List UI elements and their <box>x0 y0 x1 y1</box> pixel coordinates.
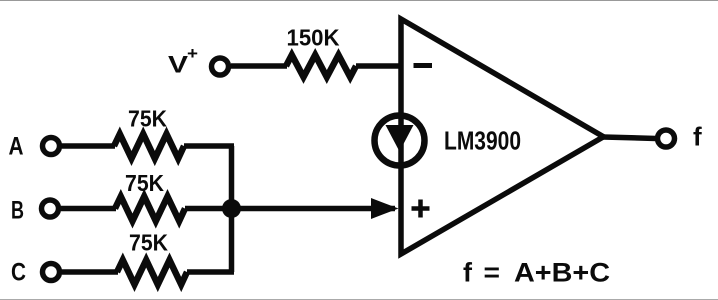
op-amp U1 LM3900 triangle <box>401 19 604 254</box>
svg-text:+: + <box>187 44 198 63</box>
svg-text:75K: 75K <box>128 106 167 132</box>
junction dot at B node <box>222 199 241 218</box>
equation f = A+B+C <box>463 258 610 288</box>
resistor 150K <box>286 55 356 77</box>
svg-text:f: f <box>463 258 473 288</box>
svg-text:150K: 150K <box>287 25 340 51</box>
wire V+ terminal to R 150K <box>231 63 287 69</box>
svg-text:C: C <box>11 259 26 287</box>
scan edge line top <box>0 0 718 2</box>
resistor 75K (B) <box>115 197 185 222</box>
plus input sign <box>412 200 430 218</box>
resistor 75K (C) <box>117 260 187 285</box>
terminal A <box>43 138 60 155</box>
current source circle of Norton amp <box>375 116 425 166</box>
resistor 75K (A) <box>114 134 184 159</box>
svg-text:LM3900: LM3900 <box>444 126 521 156</box>
node V+ label <box>168 44 198 79</box>
wire C terminal to R 75K <box>62 269 118 275</box>
wire summing bus vertical <box>229 146 235 272</box>
terminal B <box>42 200 59 217</box>
terminal V+ <box>212 58 229 75</box>
wire output to terminal f <box>603 137 656 139</box>
wire A terminal to R 75K <box>62 143 115 149</box>
svg-text:V: V <box>168 52 188 79</box>
svg-text:A: A <box>9 133 24 161</box>
minus input sign <box>414 63 433 68</box>
wire R 75K (B) to plus input with arrowhead <box>185 206 395 212</box>
wire R 150K to minus input <box>356 63 401 69</box>
wire B terminal to R 75K <box>61 206 116 212</box>
svg-text:A+B+C: A+B+C <box>514 258 610 288</box>
svg-text:f: f <box>693 122 702 152</box>
svg-text:75K: 75K <box>129 230 168 256</box>
scan edge line bottom <box>0 299 718 300</box>
svg-text:=: = <box>484 258 501 288</box>
wire R 75K (C) to bus <box>187 269 234 275</box>
svg-text:B: B <box>11 197 24 225</box>
wire R 75K (A) to bus <box>184 143 234 149</box>
arrowhead at plus input <box>371 198 399 219</box>
current source arrow (down) <box>386 125 414 152</box>
terminal f <box>658 130 675 147</box>
terminal C <box>43 264 60 281</box>
